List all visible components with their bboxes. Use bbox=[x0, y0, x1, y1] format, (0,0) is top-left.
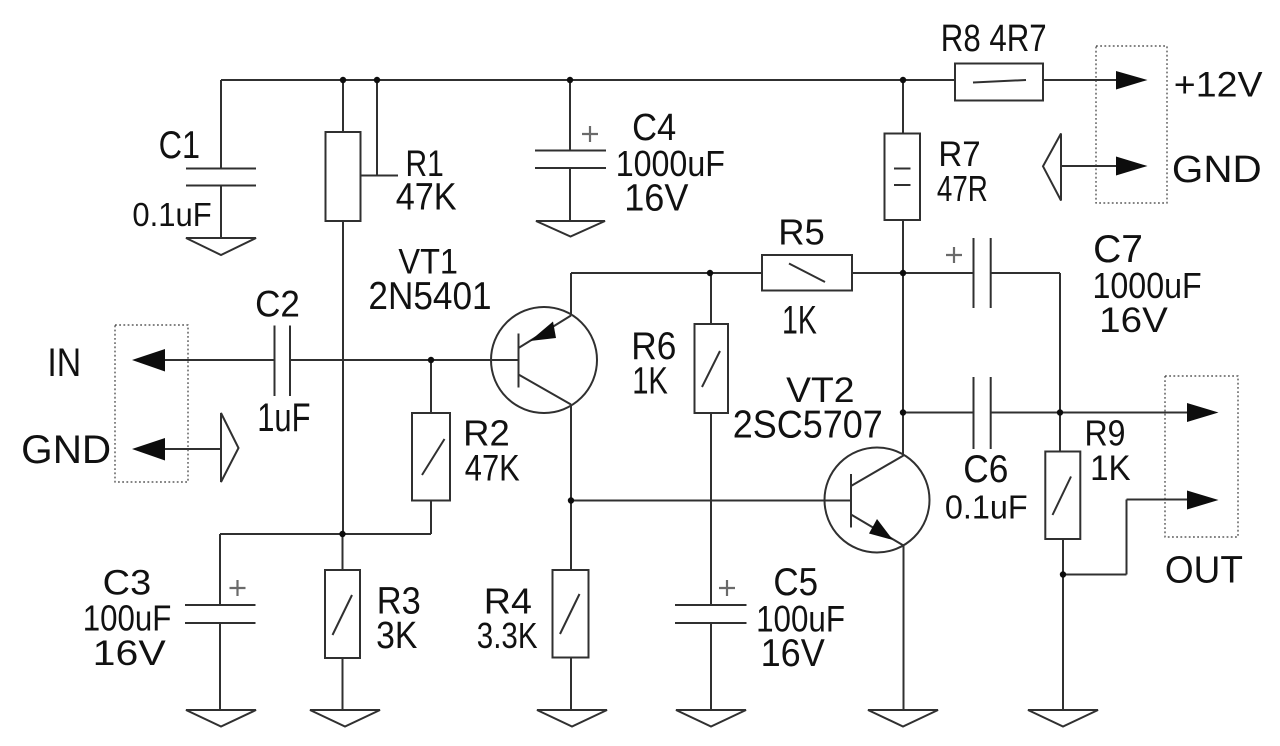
svg-text:16V: 16V bbox=[624, 177, 689, 219]
svg-text:1K: 1K bbox=[632, 361, 668, 403]
svg-text:1uF: 1uF bbox=[257, 396, 310, 440]
svg-text:IN: IN bbox=[47, 341, 81, 385]
svg-text:47K: 47K bbox=[396, 177, 457, 219]
svg-text:1K: 1K bbox=[782, 298, 817, 342]
svg-text:C3: C3 bbox=[103, 562, 152, 602]
svg-text:C2: C2 bbox=[255, 282, 300, 324]
svg-text:OUT: OUT bbox=[1165, 549, 1243, 591]
svg-text:0.1uF: 0.1uF bbox=[945, 490, 1028, 527]
svg-text:2N5401: 2N5401 bbox=[368, 275, 491, 318]
svg-text:3.3K: 3.3K bbox=[477, 615, 538, 656]
svg-text:GND: GND bbox=[1172, 149, 1262, 191]
svg-text:16V: 16V bbox=[93, 633, 166, 673]
svg-text:47R: 47R bbox=[937, 168, 988, 209]
svg-text:R5: R5 bbox=[778, 212, 825, 253]
svg-text:16V: 16V bbox=[1099, 301, 1168, 340]
svg-text:3K: 3K bbox=[376, 615, 417, 657]
svg-text:+12V: +12V bbox=[1174, 65, 1263, 105]
svg-text:1000uF: 1000uF bbox=[1093, 265, 1202, 306]
svg-text:C1: C1 bbox=[159, 124, 200, 167]
svg-text:16V: 16V bbox=[761, 632, 825, 675]
svg-text:C6: C6 bbox=[963, 448, 1008, 491]
svg-text:GND: GND bbox=[21, 428, 111, 472]
svg-text:47K: 47K bbox=[465, 448, 520, 489]
svg-text:2SC5707: 2SC5707 bbox=[733, 404, 883, 447]
svg-text:0.1uF: 0.1uF bbox=[132, 196, 211, 233]
svg-text:1K: 1K bbox=[1090, 448, 1131, 488]
svg-text:R8 4R7: R8 4R7 bbox=[941, 18, 1047, 60]
